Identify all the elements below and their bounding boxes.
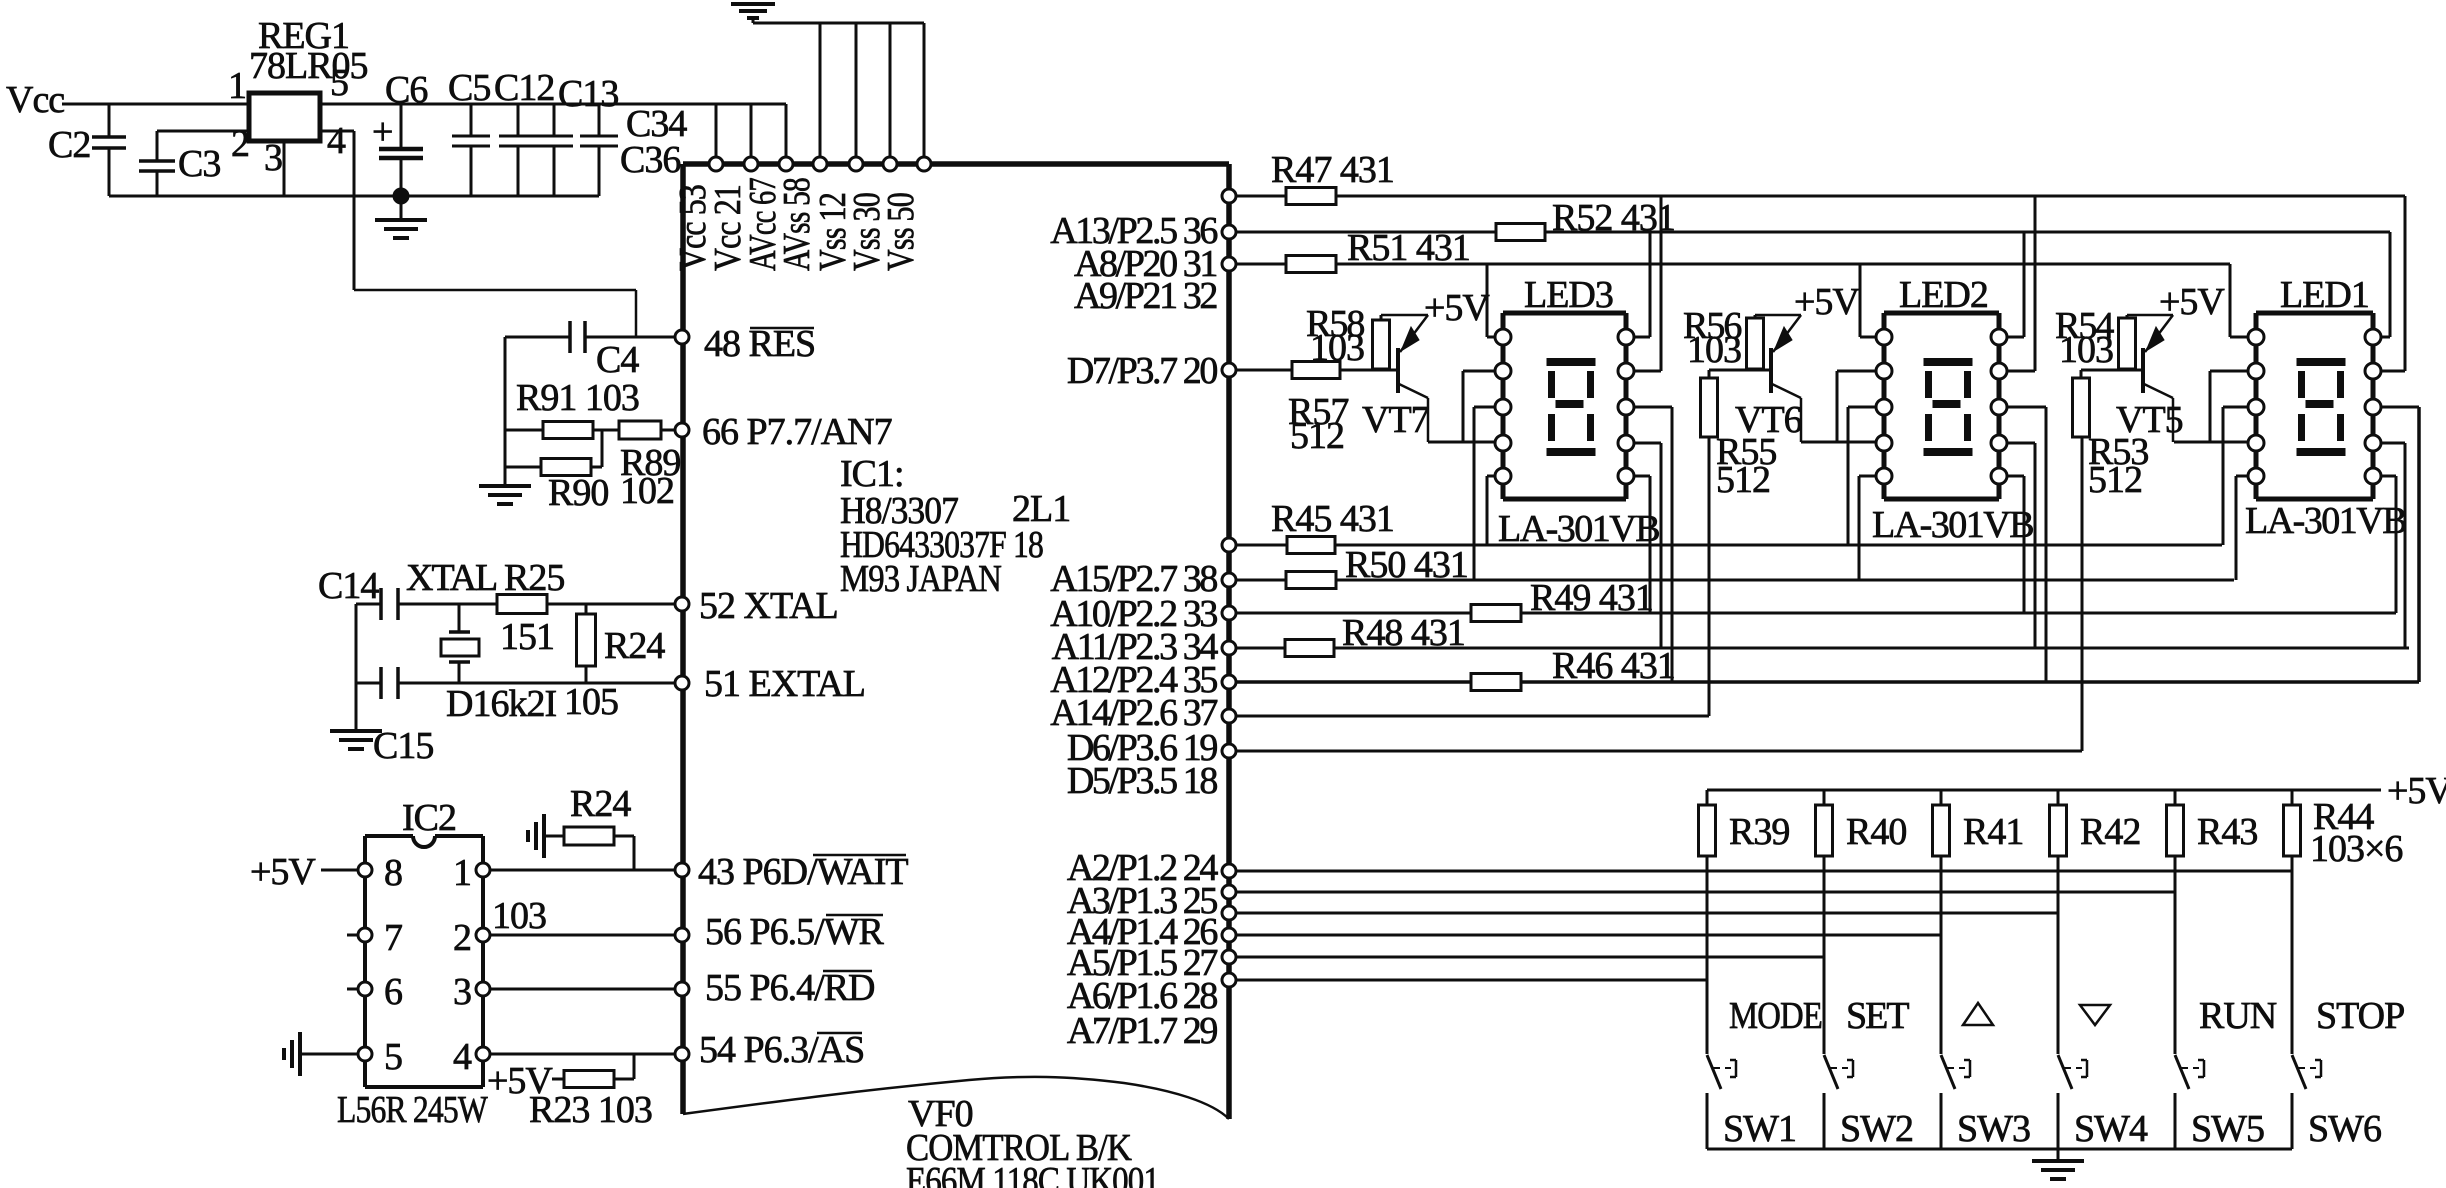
svg-text:7: 7 (384, 917, 402, 959)
ground under C14/C15 (330, 729, 382, 733)
pin at y=370 (1222, 363, 1236, 377)
wire LED3 L2 (1463, 370, 1496, 373)
wire R51 to LED3 L1 (1486, 264, 1489, 337)
pin 51 EXTAL (675, 676, 689, 690)
wire ground rail under caps (109, 195, 599, 198)
wire C13 bottom lead (553, 146, 556, 196)
pin at y=232 (1222, 225, 1236, 239)
wire LED2 R1 to R52 (2023, 232, 2026, 337)
switch SW1 (1707, 1055, 1721, 1089)
pin at y=980 (1222, 973, 1236, 987)
wire R56 top (1754, 315, 1757, 318)
wire XTAL left vertical (355, 604, 358, 729)
wire LED2 R3 to R46 (2045, 407, 2048, 682)
svg-text:C14: C14 (318, 565, 379, 607)
wire R56 bottom (1754, 369, 1757, 370)
wire A4 net (1236, 912, 2058, 915)
svg-text:LED1: LED1 (2280, 274, 2369, 316)
pin 55 P6.4/RD (675, 982, 689, 996)
LED1 left pin y=407 (2248, 399, 2264, 415)
capacitor C13 plates (535, 135, 573, 138)
svg-text:54 P6.3/AS: 54 P6.3/AS (699, 1029, 864, 1071)
capacitor C15 plates (379, 667, 383, 699)
LED1 right pin y=476 (2365, 468, 2381, 484)
pin 6 (358, 982, 372, 996)
resistor R50 (1286, 572, 1336, 589)
pin Vcc 21 (744, 157, 758, 171)
svg-text:4: 4 (453, 1036, 472, 1078)
wire C4 left lead (505, 336, 570, 339)
wire Vcc21 drop (750, 104, 753, 164)
pin Vss 50 (917, 157, 931, 171)
resistor R40 (1823, 790, 1826, 805)
wire VT7 collector to LED3 L4 (1428, 441, 1496, 444)
svg-text:R91 103: R91 103 (516, 377, 639, 419)
svg-text:LA-301VB: LA-301VB (1498, 508, 1659, 550)
wire LED1 R3 (2380, 406, 2419, 409)
svg-text:+5V: +5V (250, 851, 316, 893)
svg-text:R51 431: R51 431 (1347, 227, 1470, 269)
svg-text:SW2: SW2 (1840, 1108, 1913, 1150)
wire LED3 R1 to R52 (1649, 232, 1652, 337)
LED1 right pin y=371 (2365, 363, 2381, 379)
svg-text:R52 431: R52 431 (1552, 197, 1675, 239)
wire pin3 to 55 (490, 988, 675, 991)
svg-text:C12: C12 (494, 67, 554, 109)
svg-text:SW1: SW1 (1723, 1108, 1796, 1150)
switch SW6 (2292, 1055, 2306, 1089)
wire R47 net (pin-) (1236, 195, 2405, 198)
LED2 right pin y=371 (1991, 363, 2007, 379)
svg-text:VT7: VT7 (1362, 399, 1429, 441)
LED1 right pin y=443 (2365, 435, 2381, 451)
wire ground to pin 5 (300, 1053, 365, 1056)
svg-text:R25: R25 (504, 557, 564, 599)
wire switch ground rail (1707, 1148, 2292, 1151)
wire Vcc rail right of REG1 (320, 103, 786, 106)
ground at R24 pullup (542, 814, 546, 858)
resistor R44 (2291, 790, 2294, 805)
capacitor C2 top lead (108, 104, 111, 137)
wire R24 right (614, 835, 634, 838)
wire R55 to A14 line (1708, 437, 1711, 716)
wire to R90 (505, 466, 541, 469)
wire R45 net (1236, 544, 2222, 547)
wire C3 bottom lead (156, 171, 159, 196)
pin at y=648 (1222, 641, 1236, 655)
wire AVcc67 drop (785, 104, 788, 164)
resistor R58 103 (1373, 320, 1390, 369)
pin at y=196 (1222, 189, 1236, 203)
wire LED3 R5 (1633, 475, 1650, 478)
capacitor C6 top lead (400, 104, 403, 147)
wire R53 top lead (2080, 370, 2083, 378)
svg-text:512: 512 (1716, 459, 1770, 501)
resistor R53 512 (2073, 378, 2090, 437)
svg-text:STOP: STOP (2316, 995, 2404, 1037)
wire LED3 R1 (1633, 336, 1650, 339)
svg-text:C6: C6 (385, 69, 427, 111)
svg-text:C13: C13 (558, 73, 618, 115)
pin Vss 30 (883, 157, 897, 171)
svg-text:R43: R43 (2197, 811, 2257, 853)
svg-text:4: 4 (327, 120, 346, 162)
svg-text:+: + (372, 111, 392, 153)
wire R58 bottom (1380, 369, 1383, 370)
svg-text:RUN: RUN (2199, 995, 2277, 1037)
resistor R46 (1471, 674, 1521, 691)
pin at y=716 (1222, 709, 1236, 723)
wire LED2 L1 (1860, 336, 1877, 339)
LED3 right pin y=476 (1618, 468, 1634, 484)
resistor R56 103 (1747, 318, 1764, 369)
resistor R90 (541, 459, 591, 476)
svg-text:LA-301VB: LA-301VB (1872, 504, 2033, 546)
wire D6 net to R53 (1236, 750, 2082, 753)
svg-text:103: 103 (2059, 329, 2113, 371)
wire LED1 R2 to R47 (2404, 196, 2407, 371)
wire LED3 R4 to R48 (1660, 443, 1663, 648)
svg-text:LED2: LED2 (1899, 274, 1988, 316)
wire C4 left vertical (504, 337, 507, 484)
svg-text:D7/P3.7 20: D7/P3.7 20 (1067, 350, 1218, 392)
overline WAIT (813, 854, 906, 857)
wire ground stem (752, 18, 755, 23)
overline RD (823, 970, 872, 973)
wire LED1 L3 to R45 (2222, 407, 2225, 545)
wire C5 bottom lead (470, 146, 473, 196)
LED1 segments (2297, 358, 2346, 366)
pin at y=913 (1222, 906, 1236, 920)
wire R55 top lead (1708, 370, 1711, 378)
resistor R91 (543, 422, 593, 439)
pin at y=751 (1222, 744, 1236, 758)
wire R54 bottom (2126, 369, 2129, 370)
wire LED1 R5 to R49 (2395, 476, 2398, 613)
wire LED1 L2 (2210, 370, 2249, 373)
svg-text:SET: SET (1846, 995, 1909, 1037)
LED2 segments (1924, 358, 1973, 366)
wire LED2 L3 (1848, 406, 1877, 409)
wire pin4 to 54 (490, 1053, 675, 1056)
svg-text:M93 JAPAN: M93 JAPAN (840, 558, 1001, 600)
pin at y=871 (1222, 864, 1236, 878)
resistor R24 (osc) (577, 614, 596, 666)
wire Vss50 drop (923, 23, 926, 164)
svg-text:A9/P21 32: A9/P21 32 (1074, 275, 1216, 317)
svg-text:R42: R42 (2080, 811, 2140, 853)
LED2 left pin y=407 (1876, 399, 1892, 415)
svg-text:IC2: IC2 (402, 797, 456, 839)
wire LED2 L3 to R45 (1847, 407, 1850, 545)
wire VT5 collector to LED1 L4 (2174, 441, 2249, 444)
wire LED3 R2 to R47 (1660, 196, 1663, 371)
wire to R91 (505, 429, 543, 432)
wire C6 bottom lead (400, 158, 403, 196)
junction dot C6/ground (393, 188, 409, 204)
wire A6 net (1236, 956, 1824, 959)
wire C2 bottom lead (108, 148, 111, 196)
capacitor C4 plates (568, 321, 572, 353)
pin 4 (476, 1047, 490, 1061)
wire A2 net (1236, 870, 2292, 873)
pin 2 (476, 928, 490, 942)
wire LED3 R5 to R49 (1649, 476, 1652, 613)
wire +5V to pin 8 (321, 869, 365, 872)
resistor R24 pullup (564, 827, 614, 845)
svg-text:Vss 50: Vss 50 (880, 193, 922, 271)
capacitor C13 top lead (553, 104, 556, 136)
pin 3 (476, 982, 490, 996)
transistor VT6 (1769, 348, 1773, 393)
wire R25 to pin 52 (547, 603, 678, 606)
wire LED1 R4 (2380, 442, 2405, 445)
wire R24 bottom (585, 666, 588, 683)
wire R48 net (A11) (1236, 647, 2409, 650)
resistor R41 (1940, 790, 1943, 805)
wire LED2 R5 to R49 (2023, 476, 2026, 613)
svg-text:SW3: SW3 (1957, 1108, 2030, 1150)
LED2 left pin y=443 (1876, 435, 1892, 451)
wire Vcc53 drop (715, 104, 718, 164)
wire LED3 R4 (1633, 442, 1661, 445)
resistor R55 512 (1701, 378, 1718, 437)
capacitor C14 plates (379, 588, 383, 620)
LED display LED2 LA-301VB (1884, 311, 1999, 316)
pin 52 XTAL (675, 597, 689, 611)
ground under C6 (375, 218, 427, 222)
svg-text:48 RES: 48 RES (704, 323, 815, 365)
resistor R47 (1286, 188, 1336, 205)
pin 43 P6D/WAIT (675, 863, 689, 877)
svg-text:78LR05: 78LR05 (249, 45, 368, 87)
stub pin 7 (347, 934, 365, 937)
wire base wire VT5 (2081, 369, 2143, 372)
overline AS (817, 1032, 862, 1035)
pin at y=682 (1222, 675, 1236, 689)
svg-text:103: 103 (1687, 329, 1741, 371)
wire R54 top (2126, 315, 2129, 318)
svg-text:D5/P3.5 18: D5/P3.5 18 (1067, 760, 1218, 802)
svg-text:5: 5 (330, 62, 348, 104)
wire LED3 L1 (1487, 336, 1496, 339)
LED1 left pin y=476 (2248, 468, 2264, 484)
capacitor C34/C36 top lead (598, 104, 601, 136)
svg-text:3: 3 (453, 971, 471, 1013)
ground switches (2032, 1159, 2084, 1163)
wire AVss58 drop (819, 23, 822, 164)
LED3 left pin y=371 (1495, 363, 1511, 379)
overline WR (826, 914, 883, 917)
wire R23 up to pin4 net (633, 1054, 636, 1079)
svg-text:1: 1 (453, 852, 471, 894)
pin at y=264 (1222, 257, 1236, 271)
resistor R57 (1292, 362, 1340, 379)
svg-text:105: 105 (564, 681, 618, 723)
wire LED1 R1 (2380, 336, 2390, 339)
svg-text:51 EXTAL: 51 EXTAL (704, 663, 865, 705)
svg-text:R45 431: R45 431 (1271, 498, 1394, 540)
resistor R43 (2174, 790, 2177, 805)
wire LED2 R4 to R48 (2034, 443, 2037, 648)
wire A14 net to R55 (1236, 715, 1709, 718)
resistor R48 (1285, 640, 1334, 657)
pin 5 (358, 1047, 372, 1061)
wire LED2 R1 (2006, 336, 2024, 339)
wire LED2 L2 (1837, 370, 1877, 373)
svg-text:2: 2 (453, 917, 471, 959)
svg-text:A7/P1.7 29: A7/P1.7 29 (1067, 1010, 1218, 1052)
wire LED3 R3 to R46 (1671, 407, 1674, 682)
wire R89 to pin 66 (661, 429, 676, 432)
pin at y=935 (1222, 928, 1236, 942)
resistor R89 (619, 421, 661, 439)
pin Vcc 53 (709, 157, 723, 171)
svg-text:8: 8 (384, 852, 402, 894)
svg-text:6: 6 (384, 971, 402, 1013)
svg-text:C5: C5 (448, 67, 490, 109)
svg-text:XTAL: XTAL (406, 557, 496, 599)
pin 56 P6.5/WR (675, 928, 689, 942)
wire R51 net (A8) (1236, 263, 2230, 266)
wire R91-R89 (593, 429, 619, 432)
stub pin 6 (347, 988, 365, 991)
svg-text:C2: C2 (48, 124, 90, 166)
wire LED1 R5 (2380, 475, 2396, 478)
svg-text:R90: R90 (548, 472, 608, 514)
wire base wire VT6 (1709, 369, 1771, 372)
wire LED2 R5 (2006, 475, 2024, 478)
svg-text:D16k2I: D16k2I (446, 683, 556, 725)
wire LED1 R3 to R46 (2417, 407, 2421, 682)
wire A7 net (1236, 979, 1707, 982)
svg-text:+5V: +5V (1794, 281, 1860, 323)
wire R90 right (591, 466, 602, 469)
wire LED1 R1 to R52 (2389, 232, 2392, 337)
svg-text:R41: R41 (1963, 811, 2023, 853)
resistor R23 (564, 1071, 614, 1088)
LED3 right pin y=371 (1618, 363, 1634, 379)
capacitor C12 top lead (517, 104, 520, 136)
crystal D16k2I (458, 604, 461, 631)
LED2 left pin y=337 (1876, 329, 1892, 345)
wire VT6 collector to LED2 L4 (1801, 441, 1877, 444)
svg-text:Vcc: Vcc (6, 79, 64, 121)
resistor R52 (1496, 224, 1545, 241)
wire LED1 L3 (2223, 406, 2249, 409)
pin 66 P7.7/AN7 (675, 423, 689, 437)
wire Vss30 drop (889, 23, 892, 164)
wire REG1 pin2 to C3 (157, 130, 249, 133)
pin AVcc 67 (779, 157, 793, 171)
svg-text:56 P6.5/WR: 56 P6.5/WR (705, 911, 885, 953)
svg-text:55 P6.4/RD: 55 P6.4/RD (705, 967, 874, 1009)
wire REG1 pin4 to C4/RES node (320, 130, 354, 133)
pin 8 (358, 863, 372, 877)
svg-text:+5V: +5V (2159, 281, 2225, 323)
wire ground to R24 (544, 835, 564, 838)
svg-text:+5V: +5V (1424, 287, 1490, 329)
IC U1 H8/3307 body (683, 161, 1229, 167)
overline RES (750, 327, 814, 330)
wire LED2 R2 to R47 (2034, 196, 2037, 371)
svg-text:SW6: SW6 (2308, 1108, 2381, 1150)
wire +5V rail switches (1707, 789, 2381, 792)
switch SW2 (1824, 1055, 1838, 1089)
svg-text:SW4: SW4 (2074, 1108, 2148, 1150)
resistor R45 (1287, 537, 1335, 554)
svg-text:IC1:: IC1: (840, 453, 904, 495)
svg-text:C36: C36 (620, 139, 680, 181)
resistor R39 (1706, 790, 1709, 805)
switch SW3 (1941, 1055, 1955, 1089)
LED3 left pin y=407 (1495, 399, 1511, 415)
transistor VT7 (1396, 348, 1400, 393)
wire LED2 L5 (1859, 475, 1877, 478)
pin 54 P6.3/AS (675, 1047, 689, 1061)
svg-text:103: 103 (1310, 327, 1364, 369)
resistor R25 (497, 595, 547, 614)
wire XTAL row to R25 (398, 603, 497, 606)
LED3 right pin y=443 (1618, 435, 1634, 451)
wire R51 to LED2 L1 (1859, 264, 1862, 337)
pin at y=957 (1222, 950, 1236, 964)
ground top (Vss) (731, 2, 775, 6)
svg-text:66 P7.7/AN7: 66 P7.7/AN7 (702, 411, 892, 453)
wire R24 top (585, 604, 588, 614)
wire LED1 L2 down (2209, 371, 2212, 442)
svg-text:+5V: +5V (2387, 770, 2446, 812)
wire to ground under C6 (400, 196, 403, 220)
pin AVss 58 (813, 157, 827, 171)
resistor R42 (2057, 790, 2060, 805)
wire Vcc rail left of REG1 (62, 103, 249, 106)
wire pin2 to 56 (490, 934, 675, 937)
pin 1 (476, 863, 490, 877)
wire LED1 R2 (2380, 370, 2405, 373)
LED2 right pin y=337 (1991, 329, 2007, 345)
wire R52 net (A13) (1236, 231, 2390, 234)
wire D7 to R57 (1236, 369, 1292, 372)
svg-text:5: 5 (384, 1036, 402, 1078)
wire LED3 L2 down (1462, 371, 1465, 442)
wire R57 to VT7 base (1340, 369, 1398, 372)
svg-text:102: 102 (620, 470, 674, 512)
label up-arrow SW3 (1963, 1003, 1993, 1025)
LED2 left pin y=371 (1876, 363, 1892, 379)
svg-text:103: 103 (492, 895, 546, 937)
capacitor C2 plates (92, 135, 126, 139)
pin 7 (358, 928, 372, 942)
wire R46 net (A12) (1236, 680, 2419, 684)
transistor VT5 (2141, 348, 2145, 393)
wire C4 to pin 48 (585, 336, 678, 339)
svg-text:512: 512 (1290, 415, 1344, 457)
wire Vss top bus (753, 22, 924, 25)
wire C14 left (356, 603, 381, 606)
svg-text:43 P6D/WAIT: 43 P6D/WAIT (698, 851, 908, 893)
svg-text:C3: C3 (178, 143, 220, 185)
wire R24 down to pin1 net (633, 836, 636, 870)
wire LED2 R4 (2006, 442, 2035, 445)
LED2 left pin y=476 (1876, 468, 1892, 484)
wire LED3 R2 (1633, 370, 1661, 373)
svg-text:1: 1 (228, 65, 246, 107)
wire LED1 L5 (2236, 475, 2249, 478)
resistor R51 (1286, 256, 1336, 273)
wire R49 net (A10) (1236, 612, 2396, 615)
wire LED1 R4 to R48 (2404, 443, 2407, 648)
